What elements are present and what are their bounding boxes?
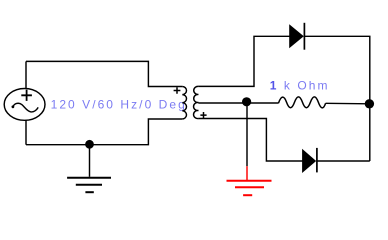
ground (black): [67, 178, 111, 193]
svg-text:120 V/60 Hz/0 Deg: 120 V/60 Hz/0 Deg: [51, 97, 187, 111]
wire secondary top to top diode: [198, 36, 289, 86]
transformer T1 secondary coil: [194, 86, 199, 118]
transformer secondary polarity +: [200, 112, 206, 118]
diode D1 (top): [290, 23, 305, 50]
node right rail junction dot: [365, 99, 374, 108]
AC source V1: [4, 89, 45, 121]
wire secondary bottom to bottom diode: [198, 119, 302, 162]
wire bottom diode to right rail: [317, 160, 370, 162]
node center tap junction dot: [242, 97, 251, 106]
wire center tap down (black part): [246, 104, 248, 166]
ground (red): [227, 181, 272, 196]
wire source bottom lead: [25, 120, 27, 145]
transformer primary polarity +: [174, 87, 181, 93]
wire ground stub: [89, 145, 91, 177]
wire source top lead: [25, 61, 27, 88]
diode D2 (bottom): [303, 148, 317, 173]
resistor R1 zigzag: [278, 97, 325, 108]
wire bottom from source to transformer primary: [26, 119, 182, 145]
node A junction dot (source ground node): [85, 140, 94, 149]
svg-text:1 k Ohm: 1 k Ohm: [270, 78, 330, 92]
wire red ground stub: [246, 166, 248, 180]
wire center tap to resistor: [198, 102, 278, 104]
wire top diode to right rail: [304, 36, 369, 161]
wire top from source to transformer primary: [26, 61, 182, 86]
resistor right lead: [326, 102, 370, 105]
transformer T1 primary coil: [182, 87, 186, 119]
